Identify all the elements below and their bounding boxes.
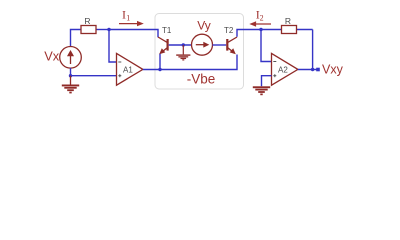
op-amp A2 (272, 53, 298, 85)
junction node on output rail (158, 68, 161, 71)
op-amp A1 (117, 53, 143, 85)
label I2 with current arrow (249, 7, 271, 26)
svg-text:-Vbe: -Vbe (187, 72, 216, 87)
ground below T1 base (176, 45, 190, 61)
svg-text:Vx: Vx (44, 49, 60, 64)
svg-text:R: R (84, 16, 90, 26)
wire T1 base to ground node to Vy (169, 44, 192, 46)
wire A1 inverting input drop (109, 30, 117, 63)
wire Vy right to T2 base (213, 44, 227, 46)
wire Vx bottom to ground node (70, 68, 72, 76)
wire feedback R right down to A2 output (312, 30, 314, 70)
junction node at R1 right / A1 inverting input (107, 28, 110, 31)
svg-text:T2: T2 (224, 26, 234, 35)
selection frame around translinear core (155, 14, 244, 90)
junction node at feedback/output (311, 68, 314, 71)
ground below Vx (62, 76, 79, 94)
ground below A2 non-inverting input (253, 86, 270, 95)
resistor R (right) (261, 26, 313, 34)
svg-text:A1: A1 (123, 65, 133, 74)
wire ground node to A1 non-inverting input (71, 75, 117, 77)
current source Vx (60, 47, 82, 69)
wire Vx top to R left (71, 30, 82, 47)
wire R right to T1 collector corner (109, 30, 158, 38)
svg-text:2: 2 (260, 14, 264, 23)
transistor T1 (158, 37, 169, 54)
current source Vy (192, 34, 213, 55)
svg-text:Vxy: Vxy (322, 63, 344, 77)
svg-text:R: R (285, 16, 291, 26)
svg-text:T1: T1 (162, 26, 172, 35)
wire A2 output to terminal (298, 69, 317, 71)
svg-text:1: 1 (126, 14, 130, 23)
junction node at A2 inverting input (259, 28, 262, 31)
wire T1 emitter drop (159, 54, 161, 70)
terminal pin Vxy (316, 68, 320, 72)
wire A2 non-inverting input to ground (262, 76, 272, 87)
svg-text:A2: A2 (278, 65, 288, 74)
wire A1 output rail (-Vbe rail) to T2 emitter (143, 55, 237, 70)
transistor T2 (226, 37, 237, 54)
junction node at Vx bottom (69, 74, 72, 77)
wire A2 inverting input drop (261, 30, 272, 62)
wire T2 collector riser (237, 30, 261, 37)
junction node at T1 base (182, 43, 185, 46)
label I1 with current arrow (119, 7, 144, 26)
svg-text:Vy: Vy (197, 18, 211, 32)
resistor R (left) (81, 26, 109, 34)
